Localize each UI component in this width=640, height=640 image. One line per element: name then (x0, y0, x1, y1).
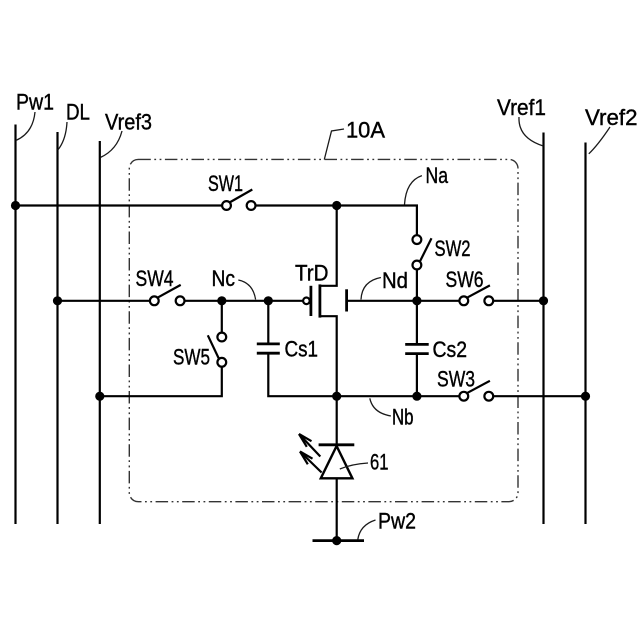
capacitor Cs2 plates (405, 343, 429, 346)
switch SW3 blade (467, 381, 490, 393)
wire SW2 bottom to node Nd (416, 270, 418, 301)
light emission arrow 2 (300, 452, 322, 473)
leader Nb (370, 398, 391, 416)
leader 61 (340, 463, 368, 469)
leader 10A (324, 129, 344, 160)
junction dot row1 TrD drain (332, 201, 341, 210)
svg-text:61: 61 (370, 450, 389, 475)
wire row1 SW1 to Na corner and down to SW2 (256, 206, 417, 236)
svg-text:TrD: TrD (295, 261, 329, 286)
leader Pw1 (16, 112, 35, 141)
junction dot Cs1 top (264, 296, 273, 305)
LED 61 triangle (321, 446, 353, 478)
transistor TrD drain path (320, 206, 337, 286)
svg-text:Nc: Nc (212, 266, 236, 291)
svg-text:SW4: SW4 (136, 266, 174, 291)
switch SW2 blade (420, 238, 432, 261)
leader Na (405, 176, 422, 205)
junction dot Pw2 (332, 536, 341, 545)
wire SW4 right to gate circle (185, 300, 304, 302)
capacitor Cs2 bottom lead (416, 355, 418, 397)
capacitor Cs1 top lead (267, 301, 269, 343)
svg-text:SW1: SW1 (208, 171, 243, 196)
wire SW6 right circle to Vref1 (493, 300, 543, 302)
svg-text:Nb: Nb (392, 405, 414, 430)
svg-text:Pw2: Pw2 (378, 509, 416, 534)
junction dot DL Nc row (53, 296, 62, 305)
svg-text:SW2: SW2 (435, 236, 471, 261)
svg-text:SW3: SW3 (437, 367, 475, 392)
switch SW1 blade (230, 190, 253, 203)
wire Vref2 vertical bus (584, 143, 586, 525)
switch SW1 circles (222, 201, 231, 210)
wire DL vertical bus (56, 132, 58, 524)
leader Vref3 (100, 131, 122, 158)
wire SW3 right circle to Vref2 (493, 395, 585, 397)
capacitor Cs2 top lead (416, 301, 418, 344)
capacitor Cs1 plates (257, 342, 280, 345)
svg-text:Pw1: Pw1 (16, 90, 54, 115)
transistor TrD right electrode bar (345, 289, 348, 311)
leader Nc (238, 280, 255, 300)
junction dot Vref3 rail (95, 392, 104, 401)
switch SW6 blade (467, 285, 490, 297)
svg-text:Vref3: Vref3 (105, 110, 152, 135)
switch SW5 circles (217, 333, 226, 342)
switch SW2 circles (413, 235, 422, 244)
junction dot node Nd (412, 296, 421, 305)
leader Nd (361, 278, 381, 300)
LED 61 cathode bar (319, 443, 355, 446)
junction dot SW6 Vref1 (539, 296, 548, 305)
svg-text:Cs1: Cs1 (285, 337, 319, 362)
wire Pw1 vertical bus (14, 125, 16, 525)
wire Nb rail: Cs1 bottom bend to SW3 (268, 355, 459, 397)
wire SW5 branch: Nc node down to SW5 top (221, 301, 223, 333)
junction dot node Nc (217, 296, 226, 305)
enclosure 10A dash-dot border (129, 159, 518, 501)
transistor TrD source path (320, 316, 337, 396)
wire Vref1 vertical bus (542, 133, 544, 525)
leader Vref2 (589, 127, 610, 154)
light emission arrow 1 (299, 434, 320, 457)
svg-text:SW5: SW5 (173, 345, 210, 370)
junction dot Cs2 bottom (412, 392, 421, 401)
svg-text:10A: 10A (346, 118, 385, 143)
svg-text:Na: Na (426, 163, 449, 188)
svg-text:Nd: Nd (382, 268, 408, 293)
junction dot Pw1 row1 (11, 201, 20, 210)
switch SW5 blade (208, 335, 219, 358)
LED 61 top lead (336, 396, 338, 445)
terminal Pw2 bar (313, 539, 365, 542)
leader Vref1 (519, 117, 543, 146)
svg-text:Vref1: Vref1 (497, 95, 546, 120)
junction dot node Nb (332, 392, 341, 401)
wire node Nd row: TrD to SW6 (347, 300, 460, 302)
svg-text:SW6: SW6 (446, 267, 484, 292)
leader Pw2 (358, 520, 376, 540)
leader DL (58, 122, 67, 150)
wire Nc row: DL to TrD gate (58, 300, 151, 302)
switch SW4 blade (158, 285, 181, 298)
switch SW4 circles (150, 296, 159, 305)
wire SW5 bottom to left rail (100, 367, 222, 397)
LED 61 bottom lead (336, 478, 338, 540)
switch SW6 circles (459, 296, 468, 305)
svg-text:Cs2: Cs2 (433, 337, 468, 362)
svg-text:DL: DL (66, 100, 90, 125)
switch SW3 circles (459, 392, 468, 401)
wire Vref3 vertical bus (99, 141, 101, 524)
junction dot SW3 Vref2 (581, 392, 590, 401)
svg-text:Vref2: Vref2 (585, 105, 638, 130)
transistor TrD gate bar (309, 286, 312, 316)
transistor TrD channel bar (318, 284, 321, 317)
transistor TrD gate circle (p-type) (303, 298, 310, 305)
wire row1 Pw1 to SW1 (16, 204, 223, 206)
